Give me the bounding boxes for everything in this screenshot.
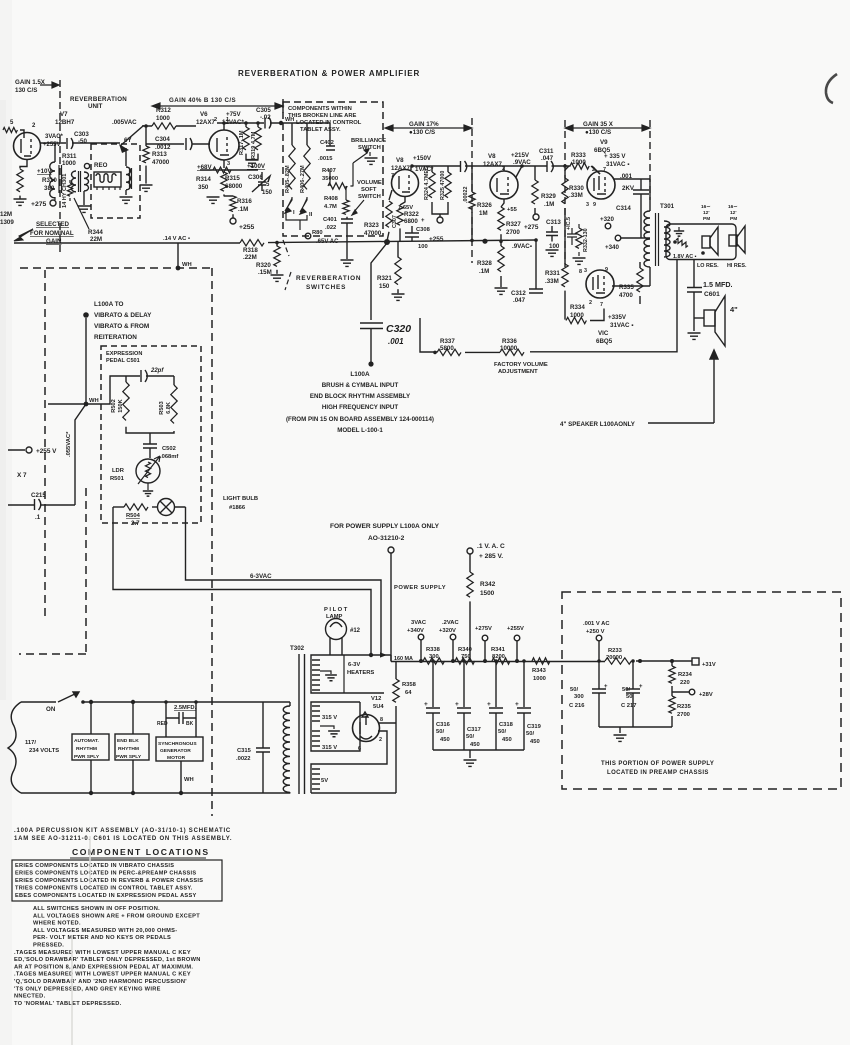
svg-text:12': 12' — [730, 210, 736, 216]
svg-text:+: + — [639, 684, 643, 690]
svg-text:.001 V AC: .001 V AC — [583, 621, 610, 627]
svg-text:6BQ5: 6BQ5 — [596, 338, 613, 345]
svg-text:64: 64 — [405, 690, 412, 696]
ground LDR — [143, 483, 153, 496]
svg-text:(FROM PIN 15 ON BOARD ASSEMBLY: (FROM PIN 15 ON BOARD ASSEMBLY 124-00011… — [286, 416, 434, 423]
svg-text:.15M: .15M — [258, 269, 272, 276]
svg-text:+ 335 V: + 335 V — [604, 153, 626, 160]
node terminal AO — [388, 547, 394, 661]
svg-text:RED: RED — [157, 721, 168, 727]
svg-text:1500: 1500 — [480, 590, 495, 597]
capacitor 2.5MFD motor — [157, 702, 197, 737]
wire interstage — [465, 165, 571, 167]
svg-text:TABLET ASSY.: TABLET ASSY. — [300, 127, 341, 133]
text percussion kit notes — [14, 828, 232, 842]
dashed box reverberation unit — [91, 144, 140, 218]
svg-text:C305: C305 — [256, 107, 271, 114]
capacitor C316 — [424, 661, 451, 750]
svg-text:12AX7: 12AX7 — [196, 119, 215, 126]
svg-text:16∼: 16∼ — [701, 204, 710, 210]
tube V8 first half — [391, 155, 434, 197]
svg-text:V9: V9 — [600, 139, 608, 146]
ground R315 — [207, 197, 220, 203]
node GAIN 17% label — [385, 121, 472, 136]
inductor 315V windings — [311, 702, 360, 751]
ground R328 — [495, 288, 508, 294]
node junction — [431, 659, 435, 663]
wire dashed boundary x=45 — [44, 270, 46, 620]
svg-text:750: 750 — [461, 654, 471, 660]
svg-text:PWR SPLY: PWR SPLY — [74, 754, 100, 760]
node junction — [534, 238, 538, 242]
capacitor C402 — [318, 140, 335, 162]
svg-text:.100A PERCUSSION KIT ASSEMBLY: .100A PERCUSSION KIT ASSEMBLY (AO-31/10-… — [14, 828, 231, 834]
text reverberation switches — [283, 240, 361, 291]
text component locations heading — [70, 847, 210, 858]
svg-text:150K: 150K — [118, 399, 124, 412]
resistor R336 — [500, 338, 524, 355]
capacitor C317 — [455, 661, 481, 750]
svg-text:+255: +255 — [239, 224, 255, 231]
svg-text:R317-.1M: R317-.1M — [239, 130, 245, 155]
wire pedal bottom node — [126, 427, 174, 444]
resistor R337 — [437, 338, 461, 356]
wire cap bus — [433, 749, 524, 751]
node junction — [462, 659, 466, 663]
svg-text:.055VAC*: .055VAC* — [66, 431, 72, 457]
svg-text:+275: +275 — [31, 201, 47, 208]
resistor R333 — [570, 152, 600, 174]
wire AC bus top — [21, 701, 290, 703]
node junction — [494, 659, 498, 663]
resistor R313 — [143, 144, 170, 184]
svg-text:R325 47000: R325 47000 — [440, 171, 446, 200]
svg-text:.001: .001 — [388, 337, 404, 346]
svg-text:AUTOMAT.: AUTOMAT. — [74, 738, 99, 744]
svg-text:C402: C402 — [320, 140, 334, 146]
svg-text:+215V: +215V — [511, 152, 530, 159]
svg-text:450: 450 — [470, 742, 480, 748]
svg-text:R408: R408 — [324, 196, 339, 202]
svg-text:+250 V: +250 V — [586, 629, 605, 635]
wire motor WH — [181, 761, 194, 793]
resistor R338 — [423, 647, 445, 664]
node junction — [631, 659, 635, 663]
wire +31V — [636, 660, 692, 662]
tube V6 12AX7 — [196, 111, 244, 167]
svg-text:RHYTHM: RHYTHM — [118, 746, 139, 752]
svg-text:450: 450 — [530, 739, 540, 745]
wire V9 plate — [613, 179, 650, 211]
svg-text:315 V: 315 V — [322, 745, 337, 751]
box synchronous generator motor — [156, 737, 203, 761]
node junction — [410, 164, 414, 168]
svg-text:.1 V. A. C: .1 V. A. C — [477, 543, 505, 550]
capacitor C315 — [236, 702, 270, 793]
svg-text:C315: C315 — [237, 748, 252, 754]
svg-text:1000: 1000 — [62, 160, 76, 167]
svg-text:BRUSH & CYMBAL INPUT: BRUSH & CYMBAL INPUT — [322, 382, 399, 389]
svg-text:VIBRATO & DELAY: VIBRATO & DELAY — [94, 312, 152, 319]
svg-text:12M: 12M — [0, 211, 12, 218]
node 12M 1309 edge labels — [0, 211, 14, 226]
svg-text:-.02: -.02 — [260, 114, 271, 121]
wire to choke — [54, 143, 56, 162]
svg-text:300: 300 — [429, 654, 439, 660]
svg-text:C314: C314 — [616, 205, 631, 212]
svg-text:V7: V7 — [60, 111, 68, 118]
ground C313 — [546, 250, 559, 256]
svg-text:2: 2 — [379, 737, 382, 743]
svg-text:SWITCH: SWITCH — [358, 194, 381, 200]
capacitor C313 — [546, 219, 561, 250]
node 3VAC +340V terminal — [407, 620, 427, 661]
node WH pedal — [48, 398, 99, 406]
resistor R405 — [285, 145, 295, 193]
svg-text:PM: PM — [703, 216, 710, 222]
svg-text:4.7M: 4.7M — [324, 204, 337, 210]
transformer T302 core — [299, 654, 305, 794]
svg-text:R341: R341 — [491, 647, 506, 653]
svg-text:C306: C306 — [248, 174, 263, 181]
svg-text:+340: +340 — [605, 244, 619, 251]
box component locations — [12, 860, 222, 901]
inductor CH301 choke — [50, 162, 68, 208]
svg-text:31VAC ▪: 31VAC ▪ — [610, 322, 633, 329]
svg-text:C308: C308 — [416, 227, 431, 233]
svg-text:VIBRATO & FROM: VIBRATO & FROM — [94, 323, 149, 330]
svg-text:6-3V: 6-3V — [348, 662, 360, 668]
node +255V terminal — [507, 626, 524, 661]
svg-text:.1M: .1M — [544, 201, 554, 208]
resistor R320 — [256, 242, 280, 276]
switch brilliance — [351, 138, 386, 186]
capacitor C319 — [515, 661, 542, 750]
tube V9 6BQ5 — [586, 139, 629, 208]
svg-text:50: 50 — [626, 694, 632, 700]
svg-text:PEDAL C501: PEDAL C501 — [106, 358, 140, 364]
svg-text:.022: .022 — [325, 225, 336, 231]
svg-text:R321: R321 — [377, 275, 392, 282]
lamp pilot — [324, 607, 361, 655]
svg-text:V8: V8 — [488, 153, 496, 160]
svg-text:.00022: .00022 — [463, 187, 469, 204]
resistor R503 — [159, 376, 177, 423]
svg-text:ERIES COMPONENTS LOCATED IN VI: ERIES COMPONENTS LOCATED IN VIBRATO CHAS… — [15, 863, 174, 869]
svg-text:22pf: 22pf — [150, 368, 164, 374]
node .001VAC +250V terminal — [583, 621, 610, 661]
wire end blk leads — [132, 702, 134, 793]
svg-text:6-3VAC: 6-3VAC — [250, 573, 272, 580]
svg-text:LDR: LDR — [112, 468, 125, 474]
svg-text:12AX7: 12AX7 — [483, 161, 502, 168]
svg-text:R313: R313 — [152, 151, 167, 158]
svg-text:1000: 1000 — [572, 159, 586, 166]
svg-text:R336: R336 — [502, 338, 517, 345]
resistor voice coil — [673, 238, 705, 255]
svg-text:R342: R342 — [480, 581, 496, 588]
wire V6 plate row — [231, 122, 283, 124]
transformer T301 primary — [644, 203, 675, 267]
svg-text:C303: C303 — [74, 131, 89, 138]
svg-text:R344: R344 — [88, 229, 103, 236]
tube V8 second half — [483, 152, 531, 199]
svg-text:II: II — [309, 212, 313, 218]
svg-text:R314: R314 — [196, 176, 211, 183]
svg-text:+255V: +255V — [43, 142, 61, 148]
svg-text:+IC.5: +IC.5 — [566, 217, 572, 230]
svg-text:2: 2 — [589, 300, 592, 306]
svg-text:5800: 5800 — [440, 345, 454, 352]
svg-text:5V: 5V — [321, 778, 328, 784]
wire dashed boundary x=565 — [564, 120, 566, 267]
svg-text:WH: WH — [285, 117, 294, 123]
resistor R319 4.7M — [251, 123, 261, 160]
svg-text:END BLK: END BLK — [117, 738, 139, 744]
svg-text:.33M: .33M — [569, 192, 583, 199]
node junction — [522, 659, 526, 663]
resistor R311 label — [62, 153, 90, 169]
svg-text:12AX7: 12AX7 — [391, 165, 410, 172]
svg-text:C313: C313 — [546, 219, 561, 226]
node GAIN 40% B 130 C/S — [152, 97, 283, 113]
text light bulb 1866 — [223, 496, 258, 511]
svg-text:GAIN 35 X: GAIN 35 X — [583, 121, 614, 128]
svg-text:220: 220 — [680, 680, 690, 686]
svg-text:+275: +275 — [524, 224, 539, 231]
svg-text:C401: C401 — [323, 217, 338, 223]
node junction — [256, 121, 260, 125]
svg-text:68000: 68000 — [225, 183, 243, 190]
svg-text:SELECTED: SELECTED — [36, 221, 70, 228]
speaker 12in HI — [728, 204, 745, 253]
svg-text:8200: 8200 — [492, 654, 505, 660]
svg-text:4" SPEAKER L100AONLY: 4" SPEAKER L100AONLY — [560, 421, 636, 428]
svg-text:.1M: .1M — [238, 206, 248, 213]
ground R310 — [14, 196, 27, 206]
wire signal to V6 — [143, 125, 196, 126]
text SELECTED FOR NOMINAL GAIN — [14, 221, 74, 245]
svg-text:ALL VOLTAGES MEASURED WITH 20: ALL VOLTAGES MEASURED WITH 20,000 OHMS- — [33, 928, 177, 934]
svg-text:R80: R80 — [312, 230, 323, 236]
svg-text:8: 8 — [380, 717, 383, 723]
svg-text:R316: R316 — [237, 198, 252, 205]
transformer reverb drive — [72, 171, 89, 205]
svg-text:+320: +320 — [600, 216, 614, 223]
svg-text:150: 150 — [379, 283, 390, 290]
resistor R502 — [111, 376, 129, 420]
svg-text:5U4: 5U4 — [373, 704, 384, 710]
resistor R235 — [669, 696, 692, 727]
svg-text:7: 7 — [600, 302, 603, 308]
wire lamp to heater — [113, 507, 381, 656]
resistor R322 — [397, 197, 420, 241]
svg-text:450: 450 — [502, 737, 512, 743]
svg-text:MOTOR: MOTOR — [167, 755, 186, 761]
svg-text:●130 C/S: ●130 C/S — [585, 129, 611, 136]
svg-text:R340: R340 — [458, 647, 472, 653]
capacitor C306 variable — [248, 172, 273, 196]
box end blk rhythm pwr sply — [115, 734, 149, 760]
dashed box control tablet assy — [283, 102, 383, 236]
capacitor C308 — [405, 218, 431, 250]
svg-text:AO-31210-2: AO-31210-2 — [368, 535, 405, 542]
wire switch commons — [286, 212, 307, 230]
svg-text:1309: 1309 — [0, 219, 14, 226]
resistor R340 — [455, 647, 475, 664]
node junction A — [384, 239, 390, 245]
svg-text:GAIN 40% B 130 C/S: GAIN 40% B 130 C/S — [169, 97, 236, 104]
ground reverb pickup — [120, 197, 133, 203]
svg-text:2.7: 2.7 — [131, 520, 140, 527]
svg-text:+340V: +340V — [407, 628, 424, 634]
inductor 5V winding — [311, 731, 387, 793]
svg-text:REVERBERATION: REVERBERATION — [70, 96, 127, 103]
text L100A input block — [286, 371, 434, 434]
svg-text:GAIN: GAIN — [46, 238, 62, 245]
wire dashed boundary x=472 — [471, 118, 473, 263]
svg-text:REITERATION: REITERATION — [94, 334, 137, 341]
resistor R233 — [605, 648, 631, 664]
svg-text:+: + — [455, 701, 459, 708]
svg-text:R337: R337 — [440, 338, 455, 345]
svg-text:R311: R311 — [62, 153, 77, 160]
svg-text:R233: R233 — [608, 648, 623, 654]
svg-text:FOR NOMINAL: FOR NOMINAL — [30, 230, 74, 237]
svg-text:50/: 50/ — [526, 731, 534, 737]
switch II — [300, 197, 313, 218]
svg-text:R319 4.7M: R319 4.7M — [251, 131, 257, 159]
svg-text:100: 100 — [549, 243, 560, 250]
svg-text:VIC: VIC — [598, 330, 609, 337]
capacitor C314 — [616, 173, 649, 238]
svg-text:+335V: +335V — [608, 314, 627, 321]
resistor R504 — [113, 504, 158, 527]
svg-text:22M: 22M — [90, 236, 102, 243]
svg-text:130 C/S: 130 C/S — [15, 87, 37, 94]
svg-text:LO RES.: LO RES. — [697, 263, 719, 269]
speaker network box — [666, 224, 736, 260]
svg-text:R335: R335 — [619, 284, 634, 291]
svg-text:315 V: 315 V — [322, 715, 337, 721]
svg-text:NNECTED.: NNECTED. — [14, 994, 46, 1000]
svg-text:R405-.82M: R405-.82M — [285, 165, 291, 193]
node GAIN 35X label — [565, 121, 650, 136]
svg-text:150: 150 — [262, 190, 273, 196]
svg-text:450: 450 — [440, 737, 450, 743]
svg-text:R234: R234 — [678, 672, 693, 678]
node junction B — [482, 239, 487, 244]
svg-text:1.5 MFD.: 1.5 MFD. — [703, 280, 733, 289]
wire AC bus bottom — [21, 792, 290, 794]
capacitor R332 bypass — [567, 228, 577, 245]
node junction — [275, 241, 279, 245]
svg-text:2700: 2700 — [506, 229, 520, 236]
svg-text:SWITCHES: SWITCHES — [306, 284, 346, 291]
svg-text:R343: R343 — [532, 668, 547, 674]
svg-text:V8: V8 — [396, 157, 404, 164]
ground brilliance — [365, 158, 378, 164]
wire tablet input — [283, 123, 330, 146]
wire feedback bottom — [420, 259, 677, 352]
resistor R326 — [469, 166, 493, 240]
svg-text:+10V: +10V — [37, 168, 52, 175]
resistor R321 — [377, 242, 401, 294]
tube V7 12BH7 — [10, 111, 75, 160]
svg-text:TRIES COMPONENTS LOCATED IN CO: TRIES COMPONENTS LOCATED IN CONTROL TABL… — [15, 886, 193, 892]
text factory volume adjustment — [494, 362, 548, 375]
svg-text:R504: R504 — [126, 513, 141, 519]
node +255V terminal — [8, 447, 57, 455]
wire rectifier return — [311, 792, 396, 794]
svg-text:SWITCH: SWITCH — [358, 145, 381, 151]
node junction — [597, 659, 601, 663]
resistor R407 — [322, 168, 353, 189]
svg-text:MODEL L-100-1: MODEL L-100-1 — [337, 427, 383, 434]
node +31V terminal — [692, 658, 716, 668]
svg-text:.005VAC: .005VAC — [112, 119, 137, 126]
node junction — [563, 164, 567, 168]
svg-text:R501: R501 — [110, 476, 125, 482]
svg-text:#12: #12 — [350, 628, 361, 634]
wire V8a plate — [411, 166, 460, 170]
svg-text:12BH7: 12BH7 — [55, 119, 75, 126]
svg-text:SOFT: SOFT — [361, 187, 377, 193]
wire grid branch — [146, 126, 210, 144]
node 3VAC / +255V labels — [43, 134, 64, 148]
capacitor C318 — [487, 661, 514, 750]
svg-text:50/: 50/ — [436, 729, 444, 735]
resistor R318 — [240, 240, 264, 261]
svg-text:HEATERS: HEATERS — [347, 670, 374, 676]
svg-text:C312: C312 — [511, 290, 526, 297]
svg-text:R333: R333 — [571, 152, 586, 159]
resistor R341 — [491, 647, 510, 664]
wire V7 plate — [40, 142, 120, 144]
svg-text:R331: R331 — [545, 270, 560, 277]
wire to C320 — [371, 243, 387, 320]
svg-text:50/: 50/ — [498, 729, 506, 735]
wire automat leads — [90, 702, 92, 793]
text L100A to vibrato — [83, 301, 152, 341]
svg-text:1000: 1000 — [570, 312, 584, 319]
box automat rhythm pwr sply — [72, 734, 109, 760]
text VIC 6BQ5 — [596, 330, 613, 345]
resistor R316 — [224, 196, 252, 218]
ground R317 R319 — [246, 154, 259, 167]
svg-text:.2VAC: .2VAC — [442, 620, 459, 626]
svg-text:R406-.27M: R406-.27M — [300, 165, 306, 193]
node +275 terminal — [31, 197, 56, 208]
text notes block — [14, 906, 201, 1007]
resistor R317 — [239, 123, 249, 155]
svg-text:+75V: +75V — [226, 111, 241, 118]
svg-text:WH: WH — [182, 262, 192, 268]
svg-text:R312: R312 — [156, 107, 171, 114]
capacitor C501 — [87, 370, 174, 404]
ground speaker box — [674, 227, 684, 236]
capacitor C311 — [539, 148, 554, 172]
node +275V terminal — [475, 626, 492, 661]
capacitor C304 — [155, 136, 192, 151]
svg-text:R235: R235 — [677, 704, 692, 710]
wire main bus .14VAC — [14, 240, 536, 243]
svg-text:2KV: 2KV — [622, 185, 635, 192]
resistor R325 — [440, 166, 451, 200]
svg-text:ALL SWITCHES SHOWN IN OFF POSI: ALL SWITCHES SHOWN IN OFF POSITION. — [33, 906, 160, 912]
dashed box preamp power supply — [562, 592, 841, 789]
svg-text:50/: 50/ — [622, 687, 630, 693]
